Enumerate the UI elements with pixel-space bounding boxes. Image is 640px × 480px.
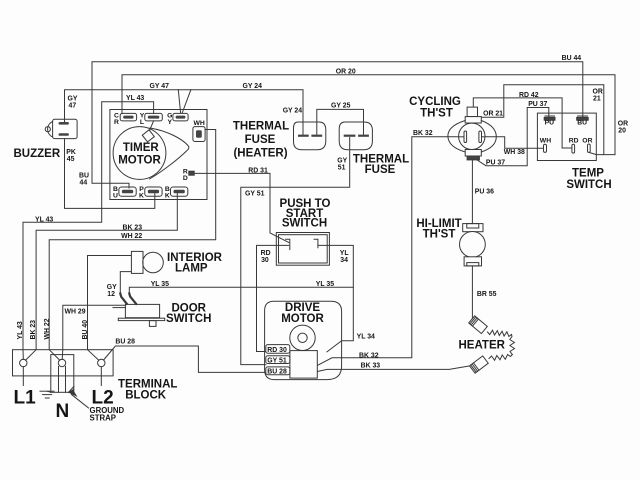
timer pin label B/U <box>113 186 118 199</box>
svg-text:BU: BU <box>79 173 89 180</box>
interior lamp bulb <box>143 252 164 273</box>
timer pin label B/K <box>165 186 170 199</box>
svg-text:STRAP: STRAP <box>90 414 116 423</box>
wire GY51: thermal fuse left lead down, across, down to drive motor GY51 pin <box>241 138 350 365</box>
svg-text:BU 28: BU 28 <box>115 339 135 346</box>
cycling thermostat contact stubs <box>459 136 464 138</box>
terminal block label <box>118 379 177 402</box>
svg-text:GY: GY <box>68 96 78 103</box>
heater element coil <box>488 330 515 360</box>
svg-text:BLOCK: BLOCK <box>125 390 167 402</box>
svg-text:OR: OR <box>618 121 628 128</box>
push to start switch <box>276 233 329 266</box>
svg-text:MOTOR: MOTOR <box>118 155 161 167</box>
net label GY12 stacked <box>107 284 117 298</box>
cycling thermostat label <box>409 96 461 120</box>
wire GY47-GY24 bus: buzzer top, across to timer G/Y funnel, on to thermal fuse heater <box>65 90 304 136</box>
drive motor label <box>281 302 324 325</box>
wire BK32: cycling thermostat left contact down to drive motor connector <box>317 137 464 366</box>
timer terminal WH <box>193 127 205 142</box>
net label RD30 stacked <box>261 250 271 264</box>
svg-text:20: 20 <box>618 128 626 135</box>
timer pin label P/K <box>139 186 144 199</box>
svg-text:47: 47 <box>69 103 77 110</box>
timer terminal R/D <box>189 171 194 175</box>
svg-text:OR: OR <box>582 138 592 145</box>
svg-text:51: 51 <box>338 164 346 171</box>
thermal fuse body <box>339 122 372 150</box>
wire GY24 funnel right diagonal into timer G/Y terminal <box>182 90 191 113</box>
cycling thermostat left contact bar <box>464 131 467 143</box>
svg-text:45: 45 <box>67 156 75 163</box>
timer pin label Y/L <box>140 112 145 125</box>
thermal fuse (heater) body <box>294 122 326 150</box>
svg-text:GY: GY <box>107 284 117 291</box>
svg-text:SWITCH: SWITCH <box>166 313 211 325</box>
terminal block screw L2 <box>98 359 105 366</box>
wire OR terminal link at temp switch (diagonal from OR contact) <box>589 152 615 154</box>
svg-text:YL 43: YL 43 <box>35 217 53 224</box>
svg-text:FUSE: FUSE <box>365 164 396 176</box>
svg-text:BK 32: BK 32 <box>359 353 379 360</box>
svg-text:SWITCH: SWITCH <box>566 179 611 191</box>
drive motor pin box GY51 <box>266 356 290 365</box>
svg-text:PU: PU <box>545 120 555 127</box>
svg-text:44: 44 <box>80 180 88 187</box>
wire BK23: timer BK terminal down, across to terminal block L1 <box>26 194 178 361</box>
timer belt loop <box>150 128 189 179</box>
svg-text:BK 23: BK 23 <box>30 320 37 340</box>
svg-text:YL 43: YL 43 <box>126 95 144 102</box>
svg-text:PU 36: PU 36 <box>475 189 494 196</box>
timer pin label C/R <box>114 112 119 125</box>
svg-text:OR 20: OR 20 <box>336 69 356 76</box>
svg-text:BK 33: BK 33 <box>361 362 381 369</box>
wire GY12: interior lamp socket down to door switch contact <box>120 272 131 296</box>
svg-text:WH 22: WH 22 <box>44 318 51 339</box>
thermal fuse label <box>353 154 409 177</box>
timer motor label <box>118 142 161 167</box>
svg-text:L: L <box>140 119 144 126</box>
svg-text:BR 55: BR 55 <box>477 291 497 298</box>
door switch contact arm left <box>120 294 127 304</box>
svg-text:GY 51: GY 51 <box>245 190 265 197</box>
timer terminal Y/L <box>145 113 163 121</box>
wire PK45: buzzer bottom to timer PK terminal <box>65 139 155 209</box>
temp switch RD contact <box>572 144 575 153</box>
timer terminal G/Y <box>173 113 188 121</box>
svg-text:(HEATER): (HEATER) <box>233 148 287 160</box>
wire YL34: push-to-start right contact down to drive motor <box>318 245 353 351</box>
svg-text:BK 32: BK 32 <box>413 130 433 137</box>
svg-text:YL 35: YL 35 <box>316 281 334 288</box>
buzzer <box>45 119 77 138</box>
svg-text:WH 38: WH 38 <box>504 149 525 156</box>
temp switch BU terminal <box>577 116 589 120</box>
svg-text:WH: WH <box>540 138 551 145</box>
wire GY25: thermal fuse heater right to thermal fuse right <box>317 109 364 135</box>
svg-text:K: K <box>165 193 170 200</box>
push to start left contact <box>286 239 290 249</box>
net label PK45 stacked <box>66 149 76 163</box>
svg-text:GY: GY <box>337 157 347 164</box>
wire YL43: timer Y/L terminal around left side down to terminal block L1 <box>23 102 154 360</box>
wire WH38: cycling thermostat right contact to temp switch WH contact <box>482 137 544 148</box>
svg-text:SWITCH: SWITCH <box>282 218 327 230</box>
timer Y/L cam link <box>150 121 154 131</box>
cycling thermostat top terminal box <box>467 107 477 117</box>
ground strap box <box>51 355 74 393</box>
temp switch WH contact <box>544 144 547 152</box>
svg-text:BU 28: BU 28 <box>267 369 287 376</box>
svg-text:TH'ST: TH'ST <box>423 228 456 240</box>
terminal block body <box>13 350 114 376</box>
svg-text:HEATER: HEATER <box>459 340 506 352</box>
heater lower terminal connector <box>470 356 489 373</box>
wire BU44 main run: timer BU terminal up-left, across top, down to temp switch BU <box>92 62 583 188</box>
ground strap arrow <box>69 390 89 408</box>
wire RD31: timer R/D terminal to push-to-start switch left contact <box>194 173 289 242</box>
svg-text:FUSE: FUSE <box>245 134 276 146</box>
timer outer box <box>110 110 207 200</box>
svg-text:TEMP: TEMP <box>572 168 604 180</box>
svg-text:BU: BU <box>577 120 587 127</box>
timer cam diamond <box>142 130 154 142</box>
svg-text:BU 40: BU 40 <box>82 320 89 340</box>
svg-text:PU 37: PU 37 <box>486 160 505 167</box>
wire RD42: cycling thermostat top terminal to temp switch RD contact <box>473 98 572 148</box>
svg-text:WH 22: WH 22 <box>121 233 142 240</box>
temp switch PU terminal <box>544 116 555 120</box>
svg-text:OR 21: OR 21 <box>483 111 503 118</box>
drive motor pulley <box>290 325 315 350</box>
cycling thermostat <box>448 107 496 160</box>
net label GY47 stacked at buzzer <box>68 96 78 110</box>
svg-text:34: 34 <box>340 257 348 264</box>
ground symbol <box>40 391 54 398</box>
timer terminal B/U <box>119 187 136 196</box>
push to start switch label <box>280 198 331 230</box>
temp switch box <box>537 113 596 160</box>
svg-text:RD 31: RD 31 <box>248 168 268 175</box>
wire OR21: cycling thermostat top box to temp switch OR node <box>478 85 604 155</box>
thermal fuse (heater) label <box>233 121 289 160</box>
svg-text:MOTOR: MOTOR <box>281 313 324 325</box>
timer pin label R/D <box>183 169 188 182</box>
wire BR55: hi-limit thermostat bottom to heater terminal <box>471 266 473 320</box>
timer pin label G/Y <box>167 112 172 125</box>
temp switch label <box>566 168 611 192</box>
heater upper terminal connector <box>469 316 488 334</box>
svg-text:CYCLING: CYCLING <box>409 96 461 108</box>
cycling thermostat bimetal disc <box>459 123 485 149</box>
timer terminal B/K <box>171 187 188 196</box>
wire YL35: door switch contact up and across to YL34 vertical <box>129 287 353 295</box>
cycling thermostat left wing <box>448 121 465 153</box>
svg-text:TIMER: TIMER <box>123 142 159 154</box>
wire RD30: push-to-start left contact down to drive motor RD30 pin <box>257 245 289 351</box>
net label OR20 stacked right <box>618 121 628 135</box>
svg-text:BK 23: BK 23 <box>123 225 143 232</box>
drive motor pin box BU28 <box>266 367 290 376</box>
svg-text:30: 30 <box>261 257 269 264</box>
svg-text:21: 21 <box>593 96 601 103</box>
svg-text:12: 12 <box>107 291 115 298</box>
svg-text:LAMP: LAMP <box>175 263 208 275</box>
svg-text:K: K <box>139 193 144 200</box>
interior lamp label <box>167 252 223 275</box>
svg-text:RD: RD <box>569 138 579 145</box>
hi-limit thermostat <box>460 224 486 266</box>
net label YL34 stacked <box>340 250 349 264</box>
temp switch OR contact <box>588 144 591 152</box>
wire BU40: terminal block L2 up to interior lamp socket <box>88 256 132 361</box>
svg-text:GY 25: GY 25 <box>331 103 351 110</box>
ground strap label <box>90 406 125 423</box>
svg-text:BUZZER: BUZZER <box>14 148 61 160</box>
cycling thermostat upper housing <box>465 117 481 123</box>
wire WH29 stub at door switch <box>113 307 125 309</box>
wire WH22: timer WH terminal right, down, across to terminal block N <box>49 130 216 361</box>
svg-text:TH'ST: TH'ST <box>420 108 453 120</box>
svg-text:RD: RD <box>261 250 271 257</box>
svg-text:YL 43: YL 43 <box>17 321 24 339</box>
svg-text:U: U <box>113 193 118 200</box>
terminal L2 stub <box>100 367 102 386</box>
svg-text:L1: L1 <box>14 388 37 409</box>
net label GY51 stacked at fuse <box>337 157 347 171</box>
svg-text:BU 44: BU 44 <box>562 55 582 62</box>
wire BU28: terminal block L2 to drive motor BU28 pin <box>104 346 266 372</box>
svg-text:YL 34: YL 34 <box>357 333 375 340</box>
timer terminal C/R <box>120 113 136 121</box>
terminal L1 stub <box>22 367 24 386</box>
drive motor connector block <box>290 351 317 379</box>
hi-limit thermostat label <box>416 218 461 240</box>
cycling thermostat right wing <box>481 121 496 153</box>
svg-text:RD 30: RD 30 <box>267 347 287 354</box>
svg-text:Y: Y <box>168 119 173 126</box>
cycling thermostat bottom terminal box <box>467 156 479 160</box>
drive motor box <box>265 301 342 379</box>
svg-text:OR: OR <box>593 89 603 96</box>
svg-text:GY 51: GY 51 <box>267 358 287 365</box>
push to start right contact <box>314 239 318 248</box>
terminal block screw L1 <box>20 359 27 366</box>
svg-text:R: R <box>114 119 119 126</box>
wire BK33: drive motor connector to heater lower terminal <box>317 366 471 372</box>
door switch contact arm right <box>129 294 136 305</box>
terminal block screw N <box>58 359 65 366</box>
cycling thermostat right contact bar <box>479 131 482 143</box>
door switch label <box>166 302 211 325</box>
svg-text:WH 29: WH 29 <box>65 309 86 316</box>
net label BU44 stacked at timer <box>79 173 89 187</box>
svg-text:D: D <box>183 175 188 182</box>
svg-text:GY 47: GY 47 <box>150 83 170 90</box>
interior lamp socket <box>131 251 143 273</box>
net label OR21 stacked <box>593 89 603 103</box>
svg-text:YL 35: YL 35 <box>151 281 169 288</box>
svg-text:THERMAL: THERMAL <box>233 121 289 133</box>
drive motor pin box RD30 <box>266 345 290 354</box>
wire WH29: door switch to terminal block N <box>62 305 125 359</box>
timer terminal P/K <box>145 187 162 196</box>
wire GY47 funnel left diagonal into timer G/Y terminal <box>178 90 180 113</box>
svg-text:RD 42: RD 42 <box>519 92 539 99</box>
wire PU36: cycling thermostat bottom to hi-limit thermostat top <box>471 160 473 224</box>
wire OR20 main run: timer C/R terminal up, across top, down right side to OR node <box>122 75 615 155</box>
wire PU37: cycling thermostat bottom to temp switch PU terminal <box>477 108 549 166</box>
svg-text:WH: WH <box>194 120 205 127</box>
svg-text:N: N <box>56 401 70 422</box>
cycling thermostat lower housing <box>465 150 481 157</box>
svg-text:YL: YL <box>340 250 349 257</box>
timer assembly <box>110 110 207 200</box>
door switch body <box>118 304 164 326</box>
svg-text:GY 24: GY 24 <box>243 83 263 90</box>
timer motor circle <box>113 127 166 180</box>
svg-text:PU 37: PU 37 <box>528 101 547 108</box>
svg-text:GY 24: GY 24 <box>283 107 303 114</box>
svg-text:PK: PK <box>66 149 76 156</box>
